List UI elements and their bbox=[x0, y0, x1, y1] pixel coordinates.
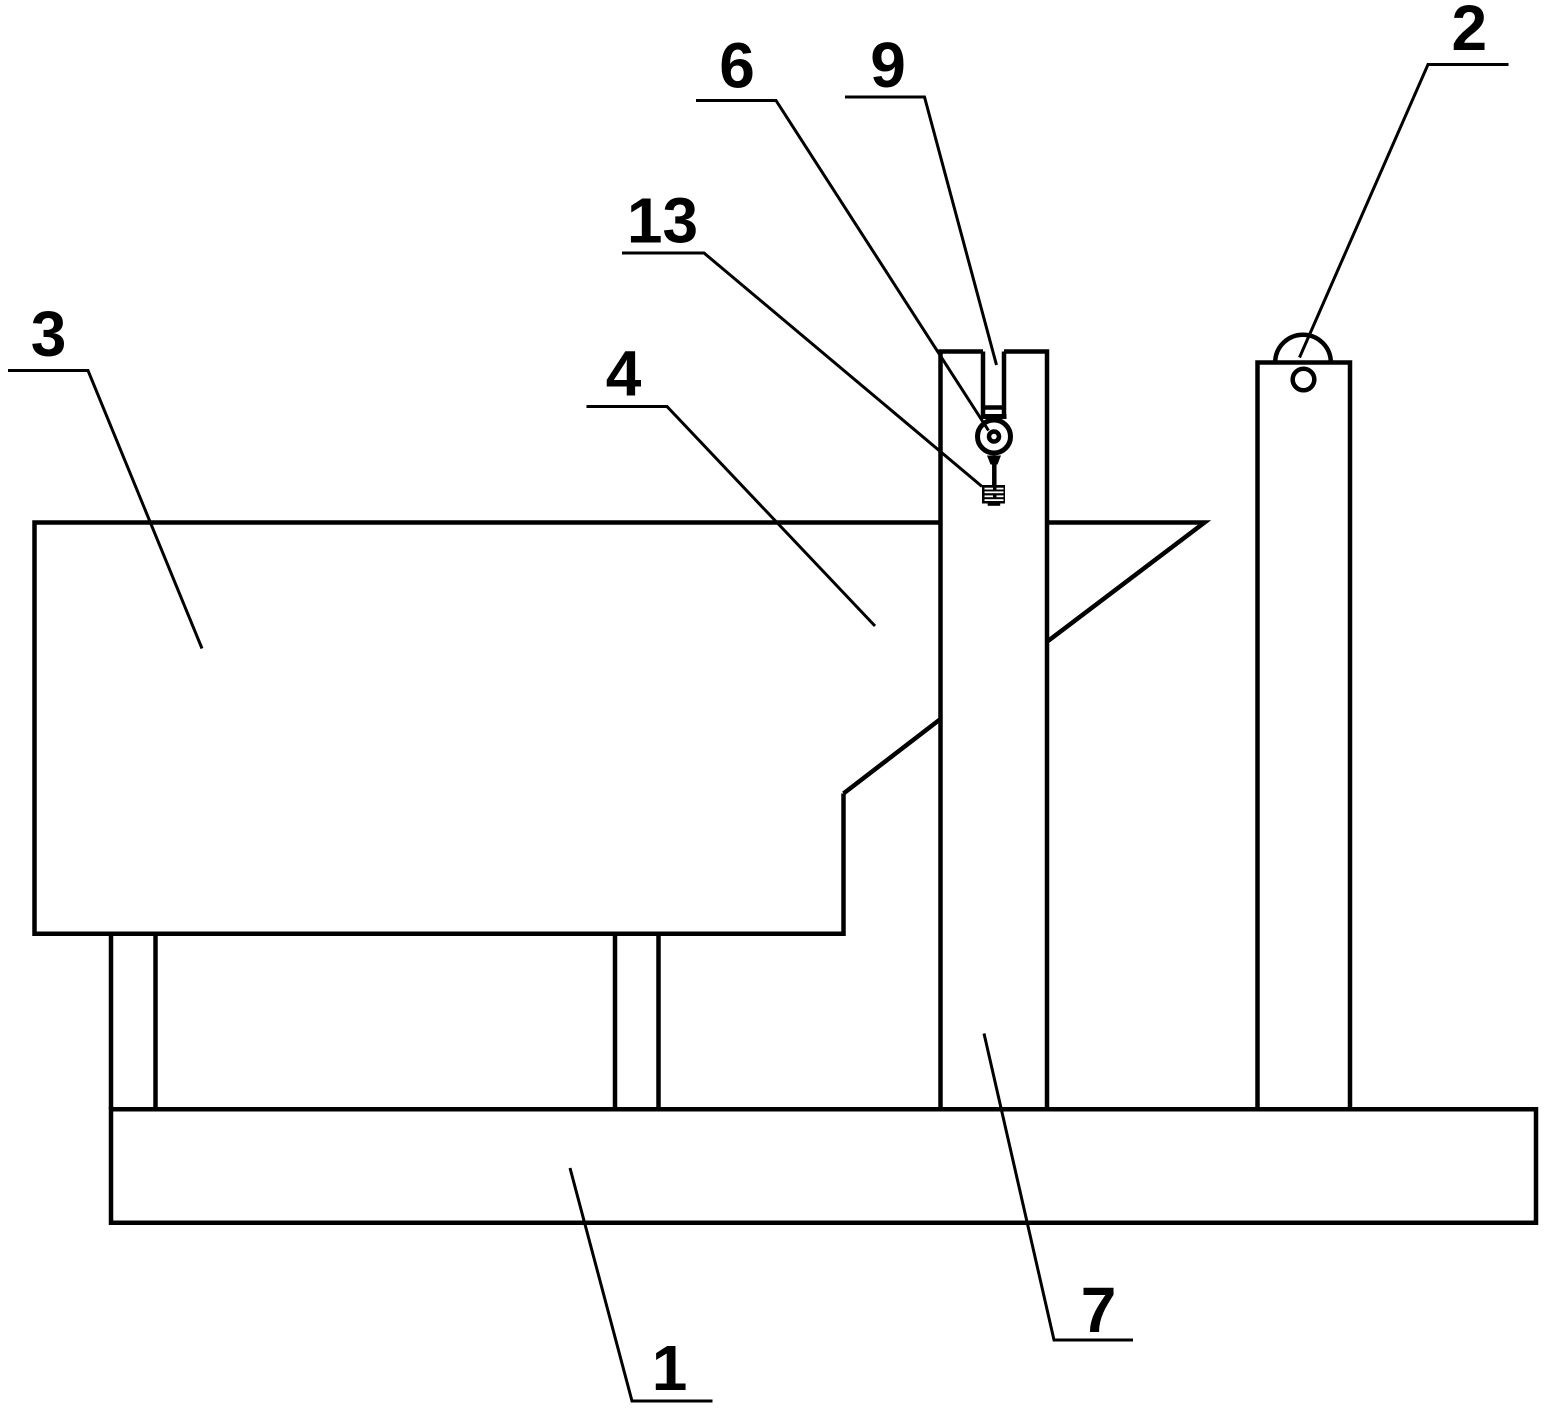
leader line for label 9 bbox=[845, 97, 997, 365]
weight block 13 bbox=[982, 485, 1005, 504]
svg-text:7: 7 bbox=[1081, 1274, 1117, 1346]
base plate 1 bbox=[111, 1109, 1536, 1223]
lifting column 7 right wall bbox=[1004, 352, 1047, 1110]
slot right wall bbox=[1002, 352, 1007, 417]
leader line for label 7 bbox=[984, 1034, 1133, 1341]
chute 4 left slant bbox=[844, 719, 941, 794]
leader line for label 6 bbox=[696, 101, 989, 431]
svg-text:6: 6 bbox=[719, 30, 755, 102]
svg-text:1: 1 bbox=[652, 1332, 688, 1404]
hanger stem bbox=[992, 464, 997, 486]
pulley bracket plate bbox=[982, 414, 1007, 419]
left support leg bbox=[111, 934, 156, 1109]
chute 4 top edge right segment and right slant bbox=[1047, 523, 1205, 642]
svg-text:2: 2 bbox=[1452, 0, 1488, 64]
pulley axle bbox=[989, 432, 999, 442]
material box 3 bbox=[35, 523, 941, 934]
arc cap on right column bbox=[1275, 335, 1331, 363]
lifting column 7 left wall bbox=[941, 352, 984, 1110]
right support leg bbox=[615, 934, 659, 1109]
svg-text:4: 4 bbox=[606, 338, 642, 410]
leader line for label 3 bbox=[8, 371, 202, 649]
pulley 6 wheel bbox=[978, 420, 1011, 453]
leader line for label 1 bbox=[570, 1168, 713, 1401]
slot bottom cap bbox=[983, 405, 1004, 410]
leader line for label 2 bbox=[1300, 65, 1509, 358]
svg-text:3: 3 bbox=[31, 298, 67, 370]
slot left wall bbox=[981, 352, 986, 417]
hole in right column bbox=[1293, 369, 1315, 391]
leader line for label 13 bbox=[622, 253, 982, 487]
leader line for label 4 bbox=[587, 407, 876, 627]
weight block bottom tab bbox=[988, 504, 1001, 506]
right column 2 bbox=[1258, 363, 1351, 1110]
hanger cone under pulley bbox=[987, 456, 1001, 465]
svg-text:13: 13 bbox=[627, 185, 698, 257]
svg-text:9: 9 bbox=[870, 29, 906, 101]
